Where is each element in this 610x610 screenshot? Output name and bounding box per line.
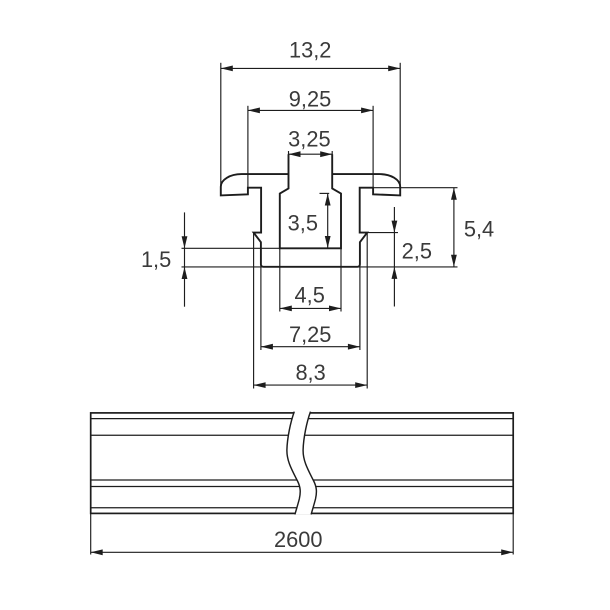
extension line 13,2 left — [220, 63, 222, 187]
extension line 9,25 right — [372, 106, 374, 195]
rail internal line 1 — [91, 418, 514, 420]
extension line 3,25 right — [331, 151, 333, 155]
dimension line 13,2 — [221, 66, 400, 72]
dimension line 2600 — [91, 549, 514, 555]
extension line 9,25 left — [247, 106, 249, 195]
dimension line 3,25 — [289, 151, 333, 157]
svg-text:1,5: 1,5 — [141, 247, 171, 272]
extension line 4,5 right — [340, 248, 342, 311]
profile cross-section: T-slot inner contour — [280, 154, 341, 248]
extension line 5,4 bottom (shared with 2,5 bottom) — [359, 266, 458, 268]
rail internal line 2 — [91, 434, 514, 436]
extension line 2,5 top — [367, 232, 398, 234]
dimension line 4,5 — [280, 306, 341, 312]
svg-text:9,25: 9,25 — [289, 87, 331, 112]
rail internal line 5 — [91, 507, 514, 509]
svg-text:3,5: 3,5 — [288, 211, 318, 236]
rail internal line 4 — [91, 486, 514, 488]
extension tick 3,5 top — [320, 192, 330, 194]
extension line 1,5 bottom — [182, 266, 264, 268]
dimension line 3,5 (vertical, inside channel) — [325, 194, 331, 249]
extension line 8,3 left — [253, 233, 255, 389]
svg-text:4,5: 4,5 — [295, 283, 325, 308]
dimension line 1,5 (vertical, arrows outside) — [182, 212, 188, 306]
dimension line 9,25 — [248, 108, 373, 114]
dimension line 5,4 (vertical, arrows inside pointing out) — [451, 188, 457, 267]
svg-text:2600: 2600 — [274, 527, 323, 552]
extension line 7,25 right — [359, 267, 361, 350]
svg-text:8,3: 8,3 — [295, 360, 325, 385]
svg-text:2,5: 2,5 — [402, 239, 432, 264]
extension line 8,3 right — [366, 233, 368, 389]
extension line 1,5 top (also channel bottom extension) — [182, 247, 280, 249]
extension line 7,25 left — [260, 267, 262, 350]
break line left — [287, 412, 300, 515]
extension line 13,2 right — [399, 63, 401, 187]
break line right — [303, 412, 316, 515]
extension line 3,25 left — [288, 151, 290, 155]
dimension line 8,3 — [254, 382, 368, 388]
rail internal line 3 — [91, 479, 514, 481]
profile cross-section: outer silhouette (wings, webs, base) — [221, 174, 400, 267]
extension line 2600 left — [90, 513, 92, 554]
svg-text:13,2: 13,2 — [289, 38, 331, 63]
svg-text:5,4: 5,4 — [464, 217, 494, 242]
extension line 4,5 left — [279, 248, 281, 311]
break gap white ribbon — [287, 412, 317, 515]
svg-text:3,25: 3,25 — [288, 127, 330, 152]
dimension line 7,25 — [261, 344, 360, 350]
rail side view: outer rectangle — [91, 413, 514, 514]
extension line 5,4 top — [361, 187, 458, 189]
dimension line 2,5 (vertical, arrows outside) — [392, 207, 398, 307]
svg-text:7,25: 7,25 — [289, 322, 331, 347]
extension line 2600 right — [512, 513, 514, 554]
